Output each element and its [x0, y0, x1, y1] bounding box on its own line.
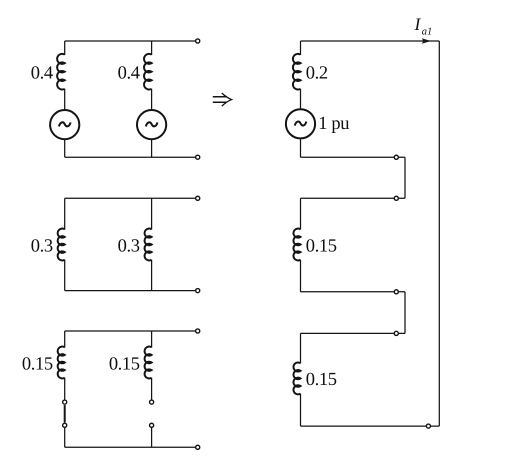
wire circuit 2 branch B upper stub	[151, 198, 153, 229]
open switch contact circle branch B upper	[150, 400, 154, 404]
source V1 tilde	[59, 122, 71, 126]
inductor 0.15 section 2	[293, 229, 300, 261]
wire branch A below source	[64, 140, 66, 157]
inductor 0.15 section 3	[293, 362, 300, 394]
svg-text:0.2: 0.2	[306, 64, 328, 84]
source V2 circle	[137, 110, 166, 139]
svg-text:0.15: 0.15	[109, 354, 140, 374]
section 2 top wire	[301, 197, 406, 199]
open switch contact circle branch B lower	[150, 423, 154, 427]
wire circuit 3 branch B upper stub	[151, 331, 153, 348]
wire branch B below source	[151, 140, 153, 157]
wire section 1 between inductor and source	[300, 89, 302, 109]
node terminal section1 bottom	[394, 155, 398, 159]
wire circuit 3 branch A upper stub	[64, 331, 66, 348]
wire section 3 branch upper stub	[300, 333, 302, 363]
svg-text:0.3: 0.3	[118, 236, 140, 256]
inductor 0.15 branch A	[58, 347, 65, 379]
source V2 tilde	[146, 122, 158, 126]
svg-text:0.15: 0.15	[306, 236, 337, 256]
terminal circuit 2 top	[196, 196, 200, 200]
wire circuit 3 branch A to switch	[64, 378, 66, 400]
implication arrow chevron	[222, 93, 232, 106]
wire circuit 3 branch B to open switch	[151, 378, 153, 400]
terminal circuit 2 bottom	[196, 289, 200, 293]
svg-text:0.3: 0.3	[31, 236, 53, 256]
wire branch B between inductor and source	[151, 89, 153, 109]
svg-text:a1: a1	[422, 26, 433, 37]
circuit 2 bottom wire	[65, 290, 196, 292]
source 1 pu tilde	[295, 121, 307, 125]
closed switch bar branch A	[64, 405, 66, 422]
svg-text:0.4: 0.4	[31, 64, 53, 84]
connector jog wire section2-section3	[404, 292, 406, 334]
circuit 3 top wire	[65, 330, 196, 332]
circuit 2 top wire	[65, 197, 196, 199]
equivalent circuit top wire	[301, 40, 440, 42]
inductor 0.3 branch B	[145, 229, 152, 261]
node terminal section3 bottom	[426, 424, 430, 428]
wire circuit 3 branch B below switch	[151, 428, 153, 447]
right bus vertical wire	[438, 41, 440, 426]
wire branch B upper stub	[151, 41, 153, 55]
wire section 1 below source	[300, 139, 302, 157]
section 3 top wire	[301, 332, 406, 334]
inductor 0.2 section 1	[293, 54, 301, 90]
circuit 3 bottom wire	[65, 446, 196, 448]
terminal circuit 3 top	[196, 329, 200, 333]
section 3 bottom wire	[301, 425, 440, 427]
current arrowhead Ia1	[422, 38, 431, 43]
section 2 bottom wire	[301, 291, 406, 293]
svg-text:0.4: 0.4	[118, 64, 140, 84]
switch contact circle branch A upper	[63, 400, 67, 404]
circuit 1 bottom wire	[65, 156, 196, 158]
wire section 2 branch lower stub	[300, 260, 302, 292]
implication arrow double line	[213, 97, 227, 103]
svg-text:0.15: 0.15	[306, 370, 337, 390]
terminal circuit 1 top	[196, 39, 200, 43]
wire branch A upper stub	[64, 41, 66, 55]
wire circuit 2 branch B lower stub	[151, 260, 153, 291]
svg-text:I: I	[414, 14, 422, 34]
node terminal section3 top	[394, 331, 398, 335]
wire branch A between inductor and source	[64, 89, 66, 109]
connector jog wire section1-section2	[404, 157, 406, 198]
circuit 1 top wire	[65, 40, 196, 42]
wire section 3 branch lower stub	[300, 394, 302, 427]
inductor 0.15 branch B	[145, 347, 152, 379]
node terminal section2 top	[394, 196, 398, 200]
wire circuit 2 branch A lower stub	[64, 260, 66, 291]
svg-text:1 pu: 1 pu	[318, 114, 349, 134]
terminal circuit 3 bottom	[196, 445, 200, 449]
terminal circuit 1 bottom	[196, 155, 200, 159]
switch contact circle branch A lower	[63, 423, 67, 427]
source V1 circle	[50, 110, 79, 139]
wire circuit 3 branch A below switch	[64, 428, 66, 447]
section 1 bottom wire	[301, 156, 406, 158]
inductor 0.4 branch A	[57, 54, 65, 90]
inductor 0.3 branch A	[58, 229, 65, 261]
svg-text:0.15: 0.15	[22, 354, 53, 374]
wire circuit 2 branch A upper stub	[64, 198, 66, 229]
node terminal section2 bottom	[394, 290, 398, 294]
inductor 0.4 branch B	[144, 54, 152, 90]
wire section 1 branch upper stub	[300, 41, 302, 55]
source 1 pu circle	[286, 109, 315, 138]
wire section 2 branch upper stub	[300, 198, 302, 229]
